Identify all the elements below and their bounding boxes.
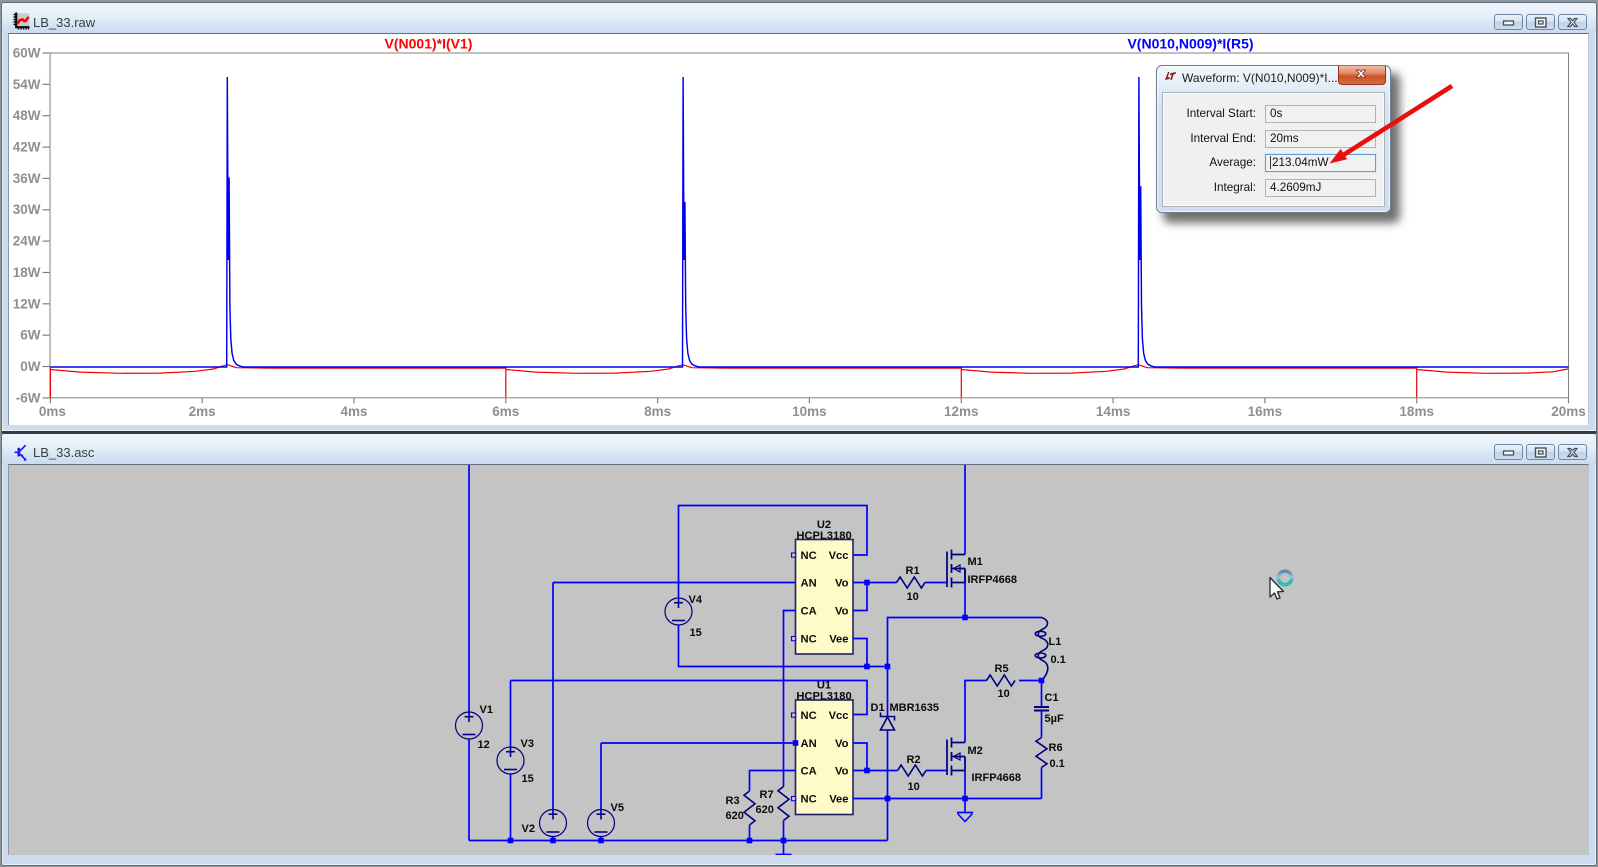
svg-text:2ms: 2ms bbox=[189, 404, 216, 419]
svg-text:R6: R6 bbox=[1049, 742, 1063, 754]
resistor R6 bbox=[1036, 738, 1047, 768]
svg-text:48W: 48W bbox=[13, 108, 41, 123]
svg-text:V3: V3 bbox=[521, 738, 534, 750]
svg-text:V2: V2 bbox=[522, 823, 535, 835]
wire U2 CA down to R7 bbox=[784, 611, 796, 787]
svg-text:15: 15 bbox=[690, 627, 702, 639]
svg-text:42W: 42W bbox=[13, 140, 41, 155]
svg-text:R7: R7 bbox=[760, 789, 774, 801]
svg-text:24W: 24W bbox=[13, 234, 41, 249]
resistor R3 bbox=[744, 791, 755, 825]
svg-text:6W: 6W bbox=[20, 328, 41, 343]
x axis ticks and labels bbox=[50, 398, 1568, 404]
plot border box bbox=[50, 53, 1569, 398]
svg-text:M1: M1 bbox=[968, 556, 983, 568]
inductor L1 bbox=[1035, 618, 1048, 681]
svg-text:R5: R5 bbox=[995, 663, 1009, 675]
svg-text:HCPL3180: HCPL3180 bbox=[796, 530, 851, 542]
svg-text:C1: C1 bbox=[1045, 692, 1059, 704]
svg-text:18ms: 18ms bbox=[1399, 404, 1434, 419]
svg-text:Vee: Vee bbox=[829, 634, 848, 646]
svg-text:30W: 30W bbox=[13, 202, 41, 217]
wire D1 branch down bbox=[887, 667, 889, 717]
wire V4 plus to U2 Vcc bbox=[679, 506, 868, 598]
wire R7 to rail bbox=[783, 821, 785, 841]
svg-text:12ms: 12ms bbox=[944, 404, 979, 419]
wire M2 body-source down bbox=[964, 771, 966, 799]
wire V2 minus to rail bbox=[552, 837, 554, 841]
svg-text:V(N010,N009)*I(R5): V(N010,N009)*I(R5) bbox=[1127, 36, 1253, 52]
junction U1 Vee / D1 anode node bbox=[885, 796, 891, 802]
svg-text:12W: 12W bbox=[13, 296, 41, 311]
wire U1 CA to R3 bbox=[750, 771, 796, 792]
voltage source V2 bbox=[540, 810, 567, 837]
svg-text:AN: AN bbox=[801, 738, 817, 750]
wire R3 to rail bbox=[749, 825, 751, 841]
wire bottom ground rail bbox=[469, 840, 888, 842]
svg-text:620: 620 bbox=[726, 810, 744, 822]
junction U1 Vo tie node bbox=[864, 768, 870, 774]
svg-text:V4: V4 bbox=[689, 594, 703, 606]
red trace V(N001)*I(V1) bbox=[50, 365, 1568, 398]
svg-text:CA: CA bbox=[801, 606, 817, 618]
svg-text:NC: NC bbox=[801, 634, 817, 646]
svg-text:MBR1635: MBR1635 bbox=[890, 702, 940, 714]
wire V5 minus to rail bbox=[600, 837, 602, 841]
junction V3 minus rail node bbox=[508, 838, 514, 844]
wire R5 to L1 out node bbox=[1019, 680, 1042, 682]
svg-text:10: 10 bbox=[908, 781, 920, 793]
wire V2 plus up to AN rail bbox=[552, 583, 554, 810]
svg-text:Vcc: Vcc bbox=[829, 710, 849, 722]
svg-text:NC: NC bbox=[801, 710, 817, 722]
svg-text:V(N001)*I(V1): V(N001)*I(V1) bbox=[385, 36, 473, 52]
wire D1 cathode to rail bbox=[887, 730, 889, 841]
voltage source V4 bbox=[665, 598, 692, 625]
wire R2 to M2 gate bbox=[926, 770, 947, 772]
wire V2 to U2 AN bbox=[553, 582, 796, 584]
wire V3 plus to U1 Vcc line B bbox=[511, 681, 868, 715]
svg-text:NC: NC bbox=[801, 794, 817, 806]
wire V5 to U1 AN bbox=[601, 742, 796, 744]
svg-text:V5: V5 bbox=[611, 802, 624, 814]
voltage source V5 bbox=[588, 810, 615, 837]
svg-text:54W: 54W bbox=[13, 77, 41, 92]
svg-text:0.1: 0.1 bbox=[1050, 758, 1065, 770]
ground GND at rail bbox=[776, 841, 792, 855]
ground GND at M2 source bbox=[957, 799, 973, 822]
svg-text:0.1: 0.1 bbox=[1051, 654, 1066, 666]
svg-text:M2: M2 bbox=[968, 745, 983, 757]
nmos transistor M1 IRFP4668 bbox=[947, 550, 965, 588]
svg-text:V1: V1 bbox=[480, 704, 493, 716]
wire U2 Vee to line A bbox=[853, 639, 867, 667]
resistor R2 bbox=[898, 765, 927, 776]
svg-text:AN: AN bbox=[801, 578, 817, 590]
svg-text:L1: L1 bbox=[1049, 636, 1062, 648]
wire M1 drain from top edge bbox=[964, 464, 966, 555]
svg-text:0ms: 0ms bbox=[39, 404, 66, 419]
svg-text:18W: 18W bbox=[13, 265, 41, 280]
wire V4 minus to switch node line A bbox=[679, 626, 888, 667]
nmos transistor M2 IRFP4668 bbox=[947, 738, 965, 776]
blue trace V(N010,N009)*I(R5) bbox=[50, 77, 1568, 367]
svg-text:Vo: Vo bbox=[835, 766, 849, 778]
svg-text:IRFP4668: IRFP4668 bbox=[972, 772, 1022, 784]
svg-text:Vo: Vo bbox=[835, 606, 849, 618]
junction U2 Vo tie node bbox=[864, 580, 870, 586]
junction R3 rail node bbox=[747, 838, 753, 844]
y axis ticks and labels bbox=[43, 53, 51, 398]
svg-text:4ms: 4ms bbox=[340, 404, 367, 419]
svg-text:620: 620 bbox=[756, 804, 774, 816]
svg-text:36W: 36W bbox=[13, 171, 41, 186]
wire U2 Vo pins tie bbox=[853, 583, 867, 611]
svg-text:Vo: Vo bbox=[835, 738, 849, 750]
svg-text:D1: D1 bbox=[871, 702, 885, 714]
wire R1 to M1 gate bbox=[925, 582, 947, 584]
svg-text:14ms: 14ms bbox=[1096, 404, 1131, 419]
wire U2 Vo to R1 bbox=[867, 582, 897, 584]
resistor R7 bbox=[778, 787, 789, 821]
wire V3 minus to rail bbox=[510, 775, 512, 841]
wire M1 source to switch wire bbox=[964, 569, 966, 618]
resistor R5 bbox=[987, 675, 1016, 686]
svg-text:10: 10 bbox=[998, 688, 1010, 700]
schottky diode D1 MBR1635 bbox=[881, 713, 895, 731]
svg-text:10ms: 10ms bbox=[792, 404, 827, 419]
svg-text:12: 12 bbox=[478, 739, 490, 751]
svg-text:R1: R1 bbox=[906, 565, 920, 577]
junction U1 AN pin node bbox=[793, 740, 799, 746]
wire switch node riser bbox=[888, 618, 1042, 667]
svg-text:20ms: 20ms bbox=[1551, 404, 1586, 419]
svg-text:Vo: Vo bbox=[835, 578, 849, 590]
voltage source V3 bbox=[497, 747, 524, 774]
svg-text:NC: NC bbox=[801, 550, 817, 562]
svg-text:HCPL3180: HCPL3180 bbox=[796, 691, 851, 703]
wire U1 Vo to R2 bbox=[867, 770, 898, 772]
svg-text:Vcc: Vcc bbox=[829, 550, 849, 562]
opto-driver IC U2 HCPL3180 bbox=[796, 540, 854, 655]
wire V5 plus up bbox=[600, 743, 602, 810]
voltage source V1 bbox=[456, 712, 483, 739]
wire R6 to Vee row bbox=[1041, 768, 1043, 799]
wire U1 Vee row to M2 source and R6 return bbox=[853, 798, 1042, 800]
wire V1 minus to ground rail bbox=[468, 740, 470, 841]
svg-text:16ms: 16ms bbox=[1248, 404, 1283, 419]
svg-text:IRFP4668: IRFP4668 bbox=[968, 574, 1018, 586]
wire C1 top lead bbox=[1041, 681, 1043, 707]
junction L1 out / R5 / C1 node bbox=[1039, 678, 1045, 684]
svg-text:8ms: 8ms bbox=[644, 404, 671, 419]
wire U1 Vo pins tie bbox=[853, 743, 867, 771]
wire C1 bottom lead bbox=[1041, 711, 1043, 738]
junction V4- / U2 Vee node on line A bbox=[864, 664, 870, 670]
junction V5 minus rail node bbox=[598, 838, 604, 844]
resistor R1 bbox=[897, 577, 926, 588]
wire V3 plus up to node bbox=[510, 681, 512, 747]
junction switch node at D1 branch bbox=[885, 664, 891, 670]
svg-text:0W: 0W bbox=[20, 359, 41, 374]
svg-text:5µF: 5µF bbox=[1045, 713, 1064, 725]
svg-text:Vee: Vee bbox=[829, 794, 848, 806]
junction M1 source / L1 node bbox=[962, 615, 968, 621]
svg-text:R2: R2 bbox=[907, 754, 921, 766]
svg-text:CA: CA bbox=[801, 766, 817, 778]
opto-driver IC U1 HCPL3180 bbox=[796, 700, 854, 815]
wire V1 drain feed from top edge bbox=[468, 464, 470, 712]
junction V2 minus rail node bbox=[550, 838, 556, 844]
svg-text:15: 15 bbox=[522, 773, 534, 785]
svg-text:10: 10 bbox=[907, 591, 919, 603]
junction R7 / ground rail node bbox=[781, 838, 787, 844]
svg-text:-6W: -6W bbox=[16, 390, 41, 405]
wire M2 drain to R5 bbox=[965, 681, 987, 743]
svg-text:6ms: 6ms bbox=[492, 404, 519, 419]
junction M2 source / ground node bbox=[962, 796, 968, 802]
svg-text:R3: R3 bbox=[726, 795, 740, 807]
capacitor C1 bbox=[1034, 707, 1049, 711]
svg-text:60W: 60W bbox=[13, 46, 41, 61]
